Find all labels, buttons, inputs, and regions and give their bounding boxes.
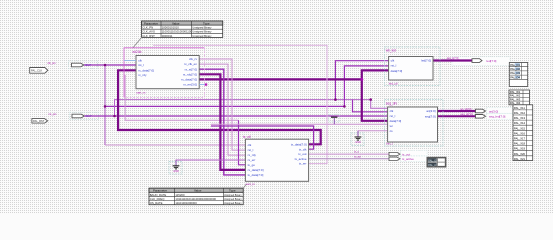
svg-text:seg_drv: seg_drv <box>386 102 398 106</box>
svg-text:led[7:0]: led[7:0] <box>421 59 431 63</box>
wire U2.R2 up-left <box>211 126 314 149</box>
svg-text:PAL_RST: PAL_RST <box>33 119 45 123</box>
wire U1.R2 down <box>199 64 245 155</box>
svg-text:rst_pin: rst_pin <box>49 112 57 116</box>
svg-text:PAL_X20: PAL_X20 <box>514 152 526 156</box>
svg-text:tx_active: tx_active <box>295 157 307 161</box>
wire clk to U4 <box>353 100 388 112</box>
wire U1.R1 down <box>199 59 245 150</box>
svg-text:CLK_RST: CLK_RST <box>142 34 155 38</box>
svg-text:PAL_D3: PAL_D3 <box>510 71 520 75</box>
stub U1.L1 <box>124 60 136 62</box>
output port tx_active <box>354 155 414 162</box>
junction F clk_dist2 <box>369 98 372 101</box>
bus U1.L3 to U2.R1 thick <box>118 70 321 144</box>
svg-text:Unsigned Binary: Unsigned Binary <box>224 198 242 201</box>
svg-text:uart_tx: uart_tx <box>246 182 256 186</box>
svg-text:PAL_X16: PAL_X16 <box>514 131 526 135</box>
junction C rst <box>113 115 116 118</box>
svg-text:rx_err: rx_err <box>248 158 256 162</box>
svg-text:rst_l: rst_l <box>390 114 396 118</box>
wire rst from IBUF2 long <box>84 115 387 117</box>
svg-text:Unsigned Binary: Unsigned Binary <box>192 26 212 30</box>
svg-text:PAL_X17: PAL_X17 <box>514 137 526 141</box>
legend table small <box>427 158 445 167</box>
parameter table T2 <box>149 188 243 205</box>
block U2 uart_tx <box>243 135 309 186</box>
svg-text:tx_go: tx_go <box>248 163 256 167</box>
svg-text:uart_rx: uart_rx <box>136 90 146 94</box>
svg-text:PAL_X13: PAL_X13 <box>514 116 526 120</box>
input port PAL_CLK <box>30 68 48 74</box>
svg-text:rx_data[7:0]: rx_data[7:0] <box>138 68 154 72</box>
svg-text:led[7:0]: led[7:0] <box>487 59 497 63</box>
svg-text:GND: GND <box>173 170 179 173</box>
svg-text:rx_st[7:0]: rx_st[7:0] <box>185 67 198 71</box>
svg-text:cs: cs <box>390 129 394 133</box>
svg-text:PAL_X21: PAL_X21 <box>514 157 526 161</box>
wire U2 out tx_active <box>309 158 389 160</box>
svg-text:Unsigned Binary: Unsigned Binary <box>224 202 242 205</box>
junction A clk <box>104 64 107 67</box>
wire clk branch y106.4 <box>105 105 344 107</box>
svg-text:PAL_W2: PAL_W2 <box>510 94 521 98</box>
junction B clk <box>104 105 107 108</box>
svg-text:Type: Type <box>229 189 236 193</box>
svg-text:tx_active: tx_active <box>402 157 414 161</box>
svg-text:rst_l: rst_l <box>138 63 144 67</box>
svg-text:PAL_X14: PAL_X14 <box>514 121 526 125</box>
wire wrap pink top <box>153 45 327 163</box>
buffer IBUF1 <box>69 61 98 69</box>
svg-text:tx_err: tx_err <box>299 162 307 166</box>
svg-text:PAL_D4: PAL_D4 <box>510 75 520 79</box>
bus U1.R5 main to U3 and U4 <box>199 70 388 79</box>
svg-text:PAL_X19: PAL_X19 <box>514 147 526 151</box>
svg-text:an[3:0]: an[3:0] <box>426 109 435 113</box>
wire x237 to U2.L5 <box>239 120 246 165</box>
svg-text:tx_o: tx_o <box>354 150 359 154</box>
svg-text:PAL_D2: PAL_D2 <box>510 67 520 71</box>
selection halo led <box>452 57 510 66</box>
svg-text:OS_RATE: OS_RATE <box>150 201 163 205</box>
svg-text:led_ctl: led_ctl <box>389 82 398 86</box>
svg-text:rx_data[7:0]: rx_data[7:0] <box>248 168 264 172</box>
port stack A <box>509 63 527 87</box>
svg-text:Unsigned Binary: Unsigned Binary <box>192 30 212 34</box>
output port an <box>461 107 499 114</box>
wire clk from IBUF1 to U1 <box>84 64 136 66</box>
wire rst to U3 <box>344 66 388 107</box>
svg-text:tx_data[7:0]: tx_data[7:0] <box>248 173 264 177</box>
block U4 seg_drv <box>385 100 444 147</box>
svg-text:PAL_A: PAL_A <box>428 164 436 167</box>
wire gnd1 to U2.L4 <box>176 160 245 166</box>
bus branch down to U4.L3 <box>362 79 388 120</box>
svg-text:tx_clk_en: tx_clk_en <box>184 62 197 66</box>
output port tx_out <box>354 150 410 157</box>
svg-text:rx_rdy: rx_rdy <box>138 73 147 77</box>
svg-text:rx_err[3:0]: rx_err[3:0] <box>183 83 197 87</box>
svg-text:Value: Value <box>194 189 202 193</box>
svg-text:rst_l: rst_l <box>391 64 397 68</box>
wire clk to U3 <box>335 61 388 100</box>
svg-text:seg_led[7:0]: seg_led[7:0] <box>489 115 506 119</box>
junction E rst_dist <box>343 105 346 108</box>
output port led <box>447 56 497 63</box>
svg-text:wr: wr <box>390 124 393 128</box>
svg-text:clk: clk <box>391 59 395 63</box>
input port PAL_RST <box>32 119 48 124</box>
svg-text:rx_data[7:0]: rx_data[7:0] <box>181 78 197 82</box>
svg-text:PAL_W3: PAL_W3 <box>510 97 521 101</box>
svg-text:led_o[7:0]: led_o[7:0] <box>447 56 459 60</box>
svg-text:hex_l: hex_l <box>386 141 393 145</box>
svg-text:tx_clk: tx_clk <box>299 147 307 151</box>
svg-text:tx_out: tx_out <box>298 152 306 156</box>
svg-text:PAL_CLK: PAL_CLK <box>31 68 42 72</box>
svg-text:rx_rdy: rx_rdy <box>248 153 257 157</box>
svg-text:rx_rdy[7:0]: rx_rdy[7:0] <box>183 72 197 76</box>
wire U1.R3 down <box>199 69 245 175</box>
svg-text:GND: GND <box>355 141 361 144</box>
svg-text:11101001000000: 11101001000000 <box>175 201 197 205</box>
wire U4 out seg <box>438 115 476 117</box>
wire rst vertical x114.5 <box>115 100 371 116</box>
output port seg <box>461 112 506 119</box>
callout line T2 <box>243 184 246 188</box>
svg-text:PAL_D1: PAL_D1 <box>510 63 520 67</box>
wire U2 out tx_out <box>309 153 389 155</box>
ground GND1 <box>169 160 182 174</box>
svg-text:PAL_X11: PAL_X11 <box>514 106 525 110</box>
svg-text:an_o[3:0]: an_o[3:0] <box>461 107 472 111</box>
block U3 led_ctl <box>385 47 441 86</box>
svg-text:tx_act: tx_act <box>354 155 361 159</box>
svg-text:data[7:0]: data[7:0] <box>390 119 402 123</box>
svg-text:clk_pin: clk_pin <box>48 61 57 65</box>
svg-text:PAL_O: PAL_O <box>428 159 436 162</box>
wire U4 out an <box>438 110 476 112</box>
wire stub x370.7 <box>371 100 388 109</box>
svg-text:PAL_W1: PAL_W1 <box>510 90 521 94</box>
svg-text:wb_led: wb_led <box>386 49 396 53</box>
svg-text:seg_o[7:0]: seg_o[7:0] <box>461 112 473 116</box>
selection halo an/seg <box>487 108 513 120</box>
wire long pink to U4.L4 <box>211 124 388 126</box>
block U1 uart_rx <box>124 48 207 98</box>
svg-text:PAL_X12: PAL_X12 <box>514 111 526 115</box>
svg-text:Unsigned Binary: Unsigned Binary <box>192 34 212 38</box>
parameter table T1 <box>142 21 223 38</box>
stub U1.R6 <box>199 84 205 86</box>
wire U1.L4 down pink <box>125 75 238 120</box>
svg-text:tx_data[7:0]: tx_data[7:0] <box>291 142 307 146</box>
svg-text:Type: Type <box>203 22 210 26</box>
svg-text:clk_rx: clk_rx <box>189 57 197 61</box>
callout line T1 <box>133 37 142 47</box>
bus U1.R4 down to U2.L6 <box>199 74 245 170</box>
wire U3 out led <box>433 59 472 61</box>
svg-text:PAL_X18: PAL_X18 <box>514 142 526 146</box>
svg-text:clk: clk <box>390 109 394 113</box>
port stack B2 <box>513 105 533 161</box>
svg-text:rst_l: rst_l <box>248 148 254 152</box>
svg-text:clk: clk <box>248 143 252 147</box>
svg-text:0000011: 0000011 <box>162 34 173 38</box>
wire clk vertical x105 <box>104 65 106 145</box>
svg-text:ed24b: ed24b <box>133 50 142 54</box>
svg-text:tx_ctl: tx_ctl <box>243 135 251 139</box>
svg-text:PAL_X15: PAL_X15 <box>514 126 526 130</box>
wire gnd2 to U4.L5 <box>358 131 388 137</box>
svg-text:Unsigned Binary: Unsigned Binary <box>224 194 242 197</box>
port stack B1 <box>509 90 530 105</box>
svg-text:seg[7:0]: seg[7:0] <box>425 114 436 118</box>
ground GND2 <box>351 131 364 146</box>
svg-text:an[3:0]: an[3:0] <box>489 109 498 113</box>
selection halo tx labels <box>401 150 428 161</box>
buffer IBUF2 <box>70 112 99 120</box>
svg-text:data[7:0]: data[7:0] <box>391 69 403 73</box>
svg-text:tx_out: tx_out <box>402 152 410 156</box>
junction G data bus <box>360 78 363 81</box>
power VCC <box>329 114 340 124</box>
svg-text:clk: clk <box>138 59 142 63</box>
junction D clk_dist <box>334 98 337 101</box>
